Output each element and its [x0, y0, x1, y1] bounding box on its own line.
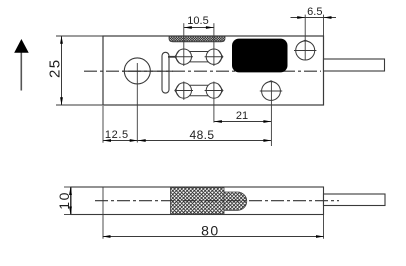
centerline (side) — [95, 200, 339, 202]
svg-text:48.5: 48.5 — [190, 128, 215, 142]
hatched bullet (side) — [224, 192, 247, 210]
dim 12.5 / 48.5 arrowheads — [103, 139, 111, 142]
hole H1 (large circle) — [122, 58, 173, 143]
dim 80 arrowheads — [103, 235, 111, 238]
dim 12.5 and 48.5 — [103, 106, 271, 143]
hatched pad (top view) — [169, 36, 225, 42]
cable (side view) — [324, 194, 386, 206]
direction arrow (load arrow) — [14, 39, 29, 91]
dim 10.5 — [184, 23, 214, 66]
screw S2 (bottom) — [260, 81, 282, 101]
dim 21 — [214, 82, 272, 147]
dim 6.5 arrowheads — [297, 16, 305, 19]
body outline — [103, 36, 324, 105]
bolt pair B3 B4 (bottom dumbbell) — [175, 82, 224, 100]
centerline horizontal — [84, 70, 321, 72]
cable (top view) — [324, 59, 385, 71]
svg-text:25: 25 — [47, 58, 64, 78]
hatched block (side) — [171, 188, 225, 215]
black potting block — [232, 39, 288, 73]
dim 25 — [56, 36, 103, 106]
dim 25 arrowheads — [60, 36, 63, 44]
dim 10 arrowheads — [69, 187, 72, 195]
dim 80 — [103, 215, 325, 239]
svg-text:6.5: 6.5 — [307, 6, 322, 18]
dim 6.5 — [291, 15, 337, 60]
svg-text:80: 80 — [201, 223, 220, 239]
svg-text:12.5: 12.5 — [105, 129, 129, 141]
side body — [71, 187, 324, 215]
slot (vertical stadium) — [162, 52, 169, 93]
inner edge line — [102, 187, 104, 239]
svg-text:10: 10 — [56, 191, 72, 210]
dim 10.5 arrowheads — [184, 26, 192, 29]
dim 21 arrowheads — [214, 120, 222, 123]
svg-text:10.5: 10.5 — [187, 15, 208, 27]
connector line slot to bolt B1 — [168, 56, 176, 58]
bolt pair B1 B2 (top dumbbell) — [175, 49, 224, 64]
svg-text:21: 21 — [236, 110, 248, 122]
dim 10 — [64, 187, 71, 215]
screw S1 (top right) — [294, 40, 316, 60]
